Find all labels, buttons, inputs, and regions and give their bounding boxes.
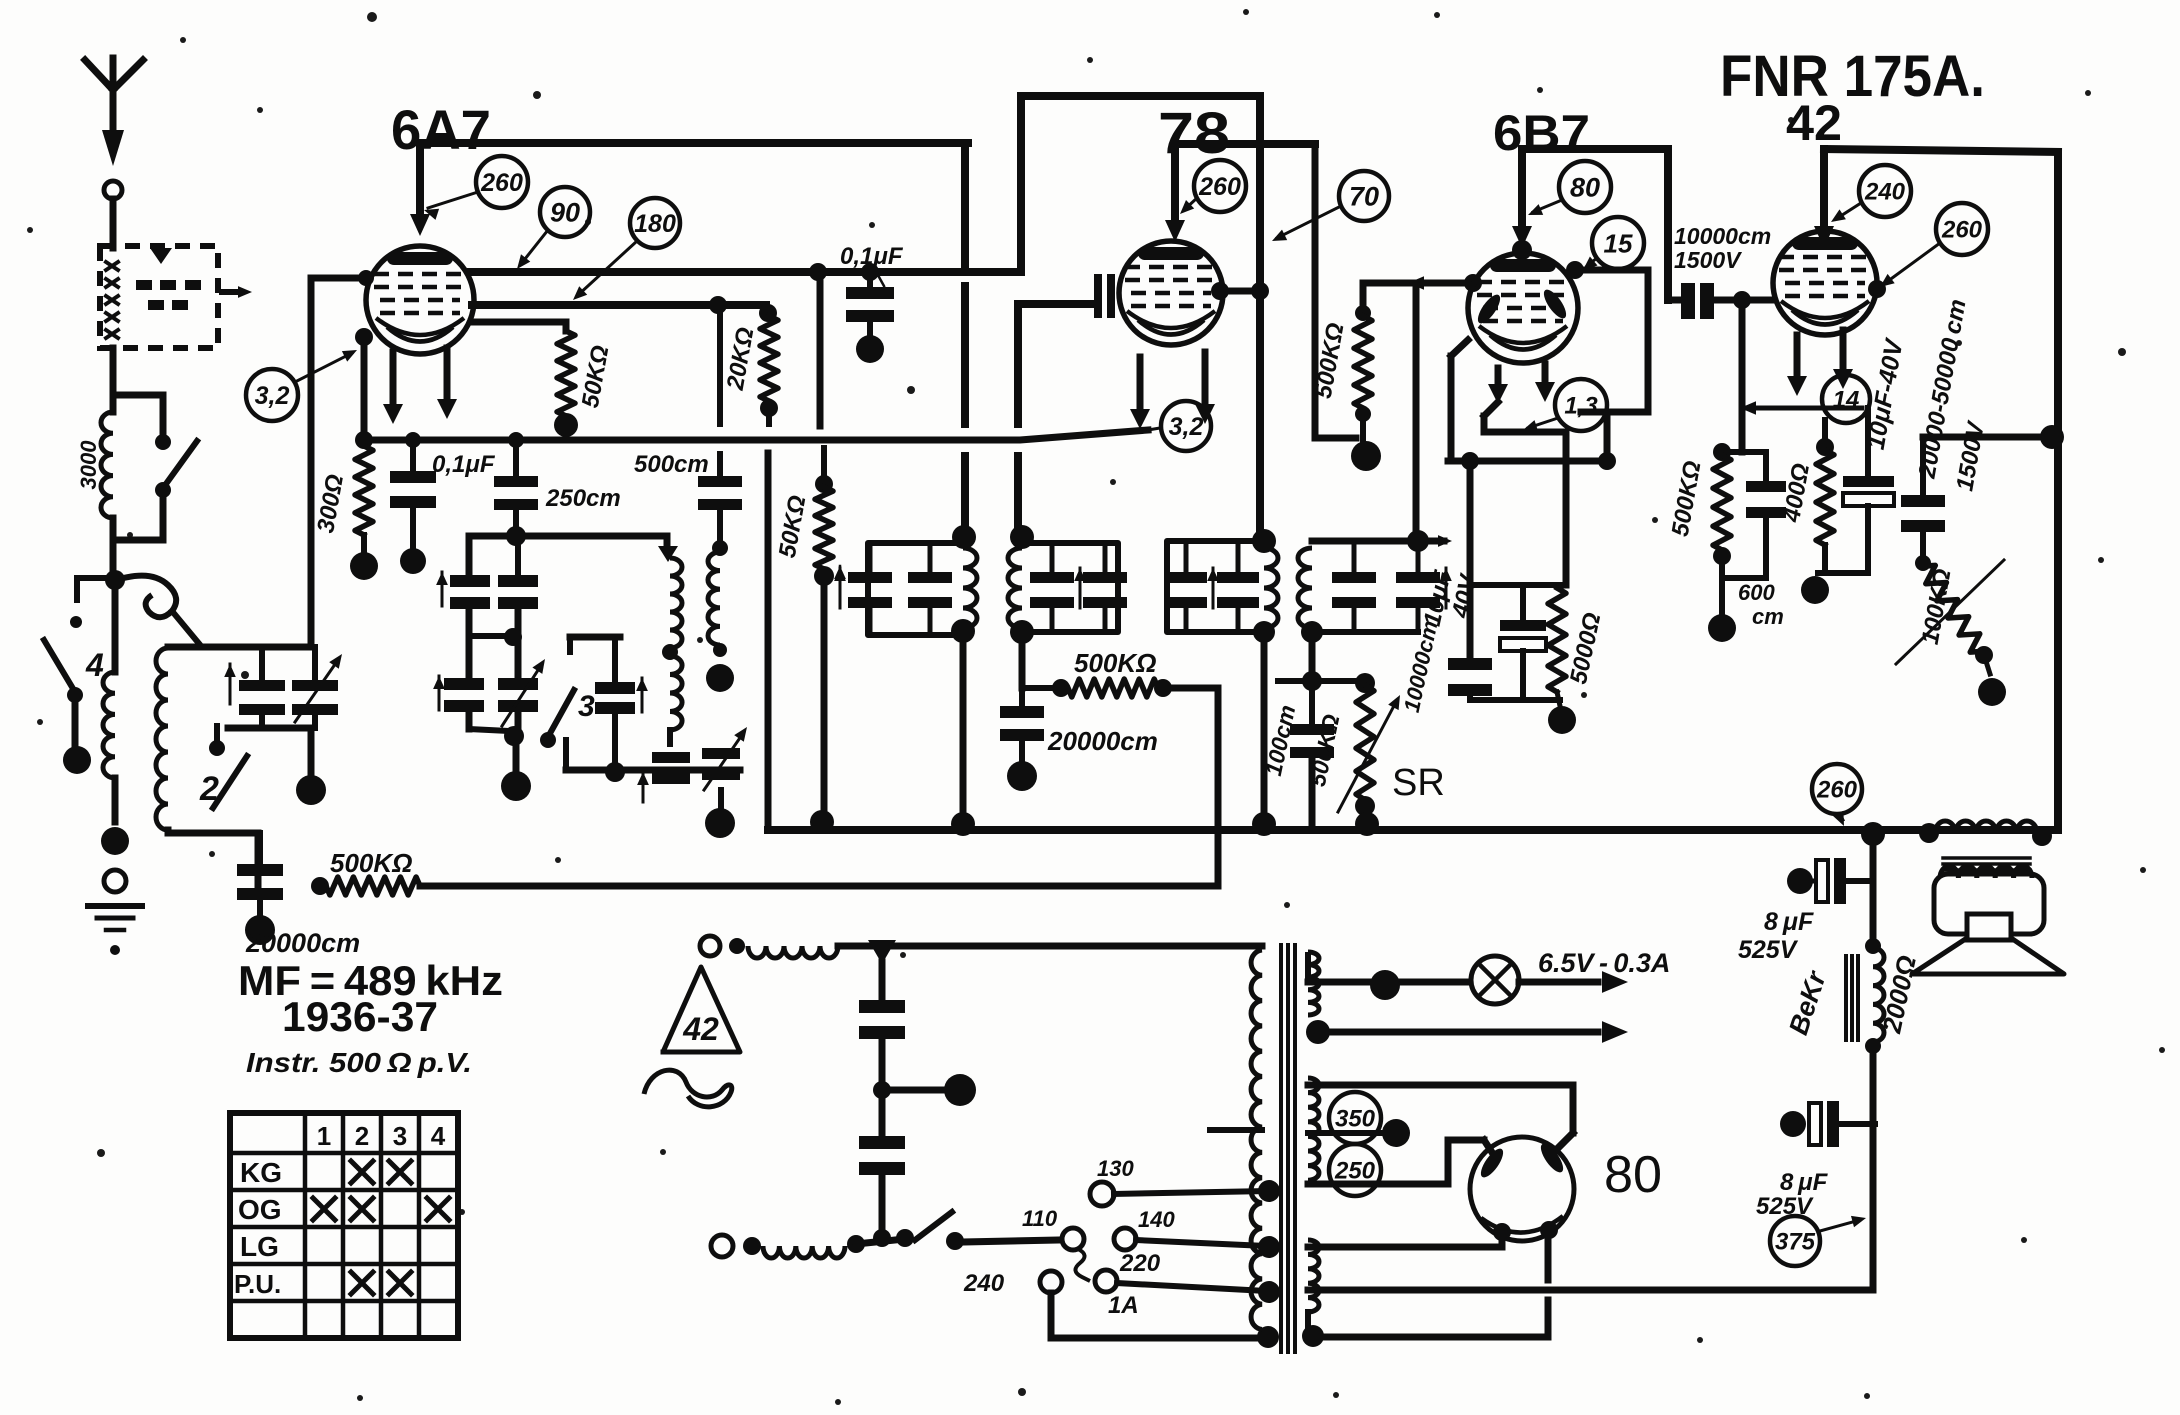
cathode network rails [1470, 585, 1560, 700]
label BeKr [1783, 966, 1832, 1038]
label Instr 500 ohm pV [246, 1047, 472, 1078]
capacitor osc gang A2 [498, 544, 538, 609]
wire osc gang mid [469, 609, 522, 678]
wire curl to gang [120, 576, 201, 646]
capacitor IFT2 a [1165, 541, 1207, 632]
label 220 [1119, 1250, 1161, 1277]
ground blob 0.1uF [400, 548, 426, 574]
label MF 489kHz [238, 957, 503, 1004]
svg-text:260: 260 [1941, 217, 1983, 244]
label 50K cathode [577, 343, 615, 410]
label 6.5V 0.3A [1538, 948, 1670, 978]
tube 78 [1119, 241, 1223, 345]
callout 240 [1831, 165, 1911, 222]
svg-text:3,2: 3,2 [255, 382, 290, 410]
transformer secondary 6.5V [1308, 952, 1319, 1015]
svg-text:500KΩ: 500KΩ [1074, 648, 1156, 678]
wire line2 screen [472, 301, 766, 309]
resistor 5000 ohm [1548, 588, 1566, 692]
callout 260 78 [1180, 160, 1246, 214]
label 20000cm cathode [1047, 726, 1158, 756]
transformer primary winding [1251, 950, 1262, 1330]
coil IFT2 secondary [1298, 548, 1312, 628]
capacitor line filter 2 [859, 1090, 905, 1240]
wire osc gang left riser [466, 536, 473, 575]
svg-text:20000cm: 20000cm [245, 928, 360, 958]
node mains bottom junction [873, 1229, 891, 1247]
mains switch [915, 1212, 1061, 1250]
pin 42 fil 1 [1787, 335, 1807, 396]
coil speaker field [1865, 938, 1884, 1054]
wire 15 screen L [1566, 261, 1648, 412]
wire line3 [471, 322, 566, 331]
pilot lamp [1471, 956, 1519, 1004]
svg-text:525V: 525V [1738, 936, 1799, 964]
speaker cone [1912, 938, 2064, 974]
42 box [1814, 149, 2058, 830]
label 20000cm [245, 928, 360, 958]
node IFT1 primary bottom [951, 619, 975, 643]
wire 6B7 grid line [1363, 274, 1482, 292]
ground blob cathode net [1548, 692, 1576, 734]
capacitor IFT2 b [1217, 541, 1259, 632]
wire vertical x311 [308, 278, 315, 647]
pin 78 fil 2 [1195, 352, 1215, 424]
resistor 500K 42 grid [1713, 443, 1766, 612]
label 20K [722, 325, 760, 393]
label 0.1uF coupling [840, 243, 904, 286]
node 6B7 top cap [1512, 240, 1532, 260]
svg-text:0,1μF: 0,1μF [840, 243, 904, 270]
callout 250 [1329, 1144, 1381, 1196]
ground blob tuning [101, 827, 129, 855]
field coil core [1846, 956, 1858, 1040]
arrow osc gang B [433, 676, 445, 710]
svg-text:260: 260 [480, 169, 523, 197]
label 50K screen [774, 493, 812, 560]
arrow IFT2 d [1440, 568, 1452, 608]
label 500K 42 [1667, 459, 1707, 539]
wire AVC line [420, 688, 1218, 886]
callout 3.2 6A7 [246, 350, 357, 421]
terminal 140 [1114, 1228, 1280, 1258]
capacitor padder B [702, 727, 747, 790]
node 78 plate [1211, 282, 1269, 300]
fuse choke bottom [763, 1246, 845, 1258]
svg-text:2: 2 [355, 1121, 369, 1151]
diode anodes 6B7 [1474, 286, 1570, 326]
coil tuning primary [103, 580, 115, 822]
ground [88, 906, 142, 955]
svg-text:350: 350 [1335, 1106, 1376, 1133]
svg-text:4: 4 [85, 647, 104, 683]
capacitor 10000cm IF [1448, 658, 1492, 700]
arrow IFT1 a [834, 568, 846, 608]
wire 42 grid drop [1739, 300, 1746, 452]
svg-text:70: 70 [1349, 182, 1379, 212]
ground blob centertap [1382, 1119, 1410, 1147]
label 10000cm coupling [1674, 223, 1771, 273]
pin 6B7 fil 1 [1488, 368, 1508, 404]
tube 6A7 [366, 246, 474, 354]
svg-text:180: 180 [634, 210, 676, 238]
callout 375 [1770, 1216, 1866, 1266]
potentiometer SR 500K [1338, 673, 1400, 830]
svg-text:130: 130 [1097, 1156, 1134, 1181]
transformer secondary HT [1308, 1078, 1319, 1180]
wire osc trimmer top [570, 637, 620, 682]
capacitor 8uF bottom [1780, 1101, 1875, 1147]
svg-text:42: 42 [1786, 95, 1842, 151]
svg-text:SR: SR [1392, 762, 1445, 804]
capacitor 10000cm coupling [1668, 283, 1773, 319]
label 250cm [545, 485, 621, 512]
svg-text:1: 1 [317, 1121, 331, 1151]
callout 260 42 [1868, 203, 1988, 298]
pin 6A7 fil 1 [383, 352, 403, 424]
label 500cm [634, 451, 709, 478]
svg-text:2: 2 [199, 770, 219, 808]
wire x1416 to IFT2 [1413, 283, 1420, 541]
svg-text:80: 80 [1604, 1146, 1662, 1204]
svg-text:80: 80 [1570, 173, 1600, 203]
node 80 pins [1493, 1221, 1558, 1241]
output transformer secondary [1940, 866, 2032, 878]
wire 42 bias line [1740, 401, 1862, 414]
wire to coupling cap [213, 833, 258, 886]
wire 6.5V arrow [1519, 971, 1628, 993]
ground blob gang [296, 775, 326, 805]
svg-text:Instr. 500 Ω p.V.: Instr. 500 Ω p.V. [246, 1047, 472, 1078]
capacitor 600cm [1722, 452, 1786, 578]
antenna terminal [104, 181, 122, 199]
table X marks OG [313, 1198, 449, 1220]
ground blob osc gang [501, 771, 531, 801]
label 10uF 40V 42 [1862, 335, 1909, 451]
wire antenna to filter [110, 199, 117, 248]
callout 90 [517, 187, 590, 269]
wire speaker field top [1870, 834, 1877, 948]
svg-text:OG: OG [238, 1194, 282, 1225]
node choke out [847, 1229, 914, 1253]
antenna [85, 58, 143, 166]
wire 6A7 cathode [355, 328, 373, 440]
arrow IFT1 d [1074, 568, 1086, 608]
label 400 ohm [1778, 461, 1815, 525]
wire osc gang bottom [469, 712, 524, 770]
ground blob 50K [554, 413, 578, 437]
svg-text:250cm: 250cm [545, 485, 621, 512]
ground blob tone [1978, 678, 2006, 706]
callout 260 6A7 [424, 156, 528, 220]
title FNR 175A [1720, 44, 1985, 109]
mains terminal bottom [711, 1235, 761, 1257]
node bus speaker [1861, 822, 1885, 846]
antenna filter dashed box [100, 246, 218, 348]
wire 80 cathode [1545, 1230, 1552, 1337]
table X marks PU [351, 1272, 411, 1294]
resistor 500K IF [1022, 679, 1218, 697]
capacitor 20000cm cathode [1000, 688, 1044, 760]
IFT2 secondary caps [1332, 541, 1440, 632]
coil value 3000 [76, 440, 101, 490]
wire gang bottom [228, 728, 311, 774]
node filter mid [873, 1081, 944, 1099]
ground blob switch 4 [63, 746, 91, 774]
pin 78 fil 1 [1130, 357, 1150, 429]
node cathode junction [355, 431, 373, 449]
svg-text:6.5V - 0.3A: 6.5V - 0.3A [1538, 948, 1670, 978]
switch 2 [199, 726, 247, 808]
wire rect filament out [1308, 1232, 1502, 1247]
label tone cap [1913, 297, 1990, 493]
ground blob filter [944, 1074, 976, 1106]
node IFT2 secondary top [1407, 530, 1429, 552]
node IFT1 primary top [952, 525, 976, 549]
wire x1260 78 plate drop [1256, 96, 1264, 541]
arrow on grid line [1408, 276, 1424, 289]
label 240 [963, 1270, 1005, 1297]
terminal 130 [1090, 1180, 1280, 1206]
capacitor 100cm [1290, 681, 1334, 830]
transformer core [1281, 945, 1295, 1352]
svg-text:3: 3 [578, 690, 595, 723]
table header 1 2 3 4 [317, 1121, 446, 1151]
label 110 [1022, 1206, 1058, 1231]
fuse choke top [748, 946, 838, 958]
coil antenna primary [101, 412, 113, 578]
svg-text:cm: cm [1752, 604, 1784, 629]
ground blob osc feedback [706, 664, 734, 692]
speaker voice coil [1967, 914, 2011, 940]
tube label 6A7 [391, 98, 491, 161]
node IFT1 secondary bottom [1010, 620, 1034, 644]
svg-text:10000cm: 10000cm [1674, 223, 1771, 249]
label 500K SR [1304, 712, 1345, 789]
capacitor 0.1uF cathode [390, 432, 436, 548]
resistor 20K [759, 304, 778, 424]
wire 6.5V tap top [1308, 955, 1468, 1000]
svg-text:600: 600 [1738, 580, 1775, 605]
callout 350 [1329, 1092, 1381, 1144]
table X marks KG [351, 1161, 411, 1183]
speaker frame [1934, 874, 2044, 934]
ground blob 42 grid [1708, 614, 1736, 642]
resistor 50K cathode [557, 331, 575, 416]
ground blob 6B7 grid [1351, 441, 1381, 471]
wire gang top [168, 644, 311, 651]
arrow padder [637, 772, 649, 802]
coil oscillator grid [662, 558, 682, 744]
label 130 [1097, 1156, 1134, 1181]
wire HT plate2 [1308, 1140, 1495, 1184]
wire IFT2 secondary top line [1312, 535, 1452, 547]
wire 78 grid riser [1018, 304, 1093, 537]
svg-text:8 μF: 8 μF [1764, 908, 1814, 936]
pin 42 fil 2 [1833, 330, 1853, 389]
arrow osc gang A [436, 572, 448, 606]
svg-text:1936-37: 1936-37 [282, 993, 438, 1040]
wire padder bottom [718, 790, 724, 808]
capacitor padder A [652, 752, 690, 784]
switch 4 [44, 616, 104, 748]
wire 6A7 plate top [420, 139, 968, 147]
ground blob 20000cm cathode [1007, 761, 1037, 791]
IFT2 primary box [1167, 541, 1264, 632]
label 600cm [1738, 580, 1784, 629]
coil tuning secondary [156, 648, 213, 833]
svg-text:8 μF: 8 μF [1780, 1169, 1829, 1196]
ground blob 300 [350, 552, 378, 580]
label SR [1392, 762, 1445, 804]
label 0.1uF cathode [432, 451, 496, 478]
svg-text:260: 260 [1816, 777, 1858, 804]
capacitor 20000cm antenna [237, 833, 283, 918]
wire IFT1 primary to bus [960, 631, 967, 830]
tube label 42 [1786, 95, 1842, 151]
wire branch x820 [809, 263, 827, 426]
node IFT2 primary top [1252, 529, 1276, 553]
tube label 80 [1604, 1146, 1662, 1204]
callout 260 bus [1812, 764, 1862, 826]
wire main bus [768, 453, 2058, 830]
svg-text:4: 4 [431, 1121, 446, 1151]
node IFT1 secondary top [1010, 525, 1034, 549]
label 8uF bottom [1756, 1169, 1829, 1220]
svg-text:0,1μF: 0,1μF [432, 451, 496, 478]
terminal 240 [1040, 1271, 1062, 1338]
wire x1315 drop [1315, 144, 1356, 438]
tube 42 [1773, 231, 1877, 335]
tube label 6B7 [1493, 105, 1590, 161]
wire osc bottom rail [566, 740, 740, 782]
phase squiggle [644, 1070, 732, 1107]
svg-text:240: 240 [963, 1270, 1005, 1297]
switch 3 [540, 637, 595, 748]
transformer secondary 5V [1308, 1240, 1319, 1332]
capacitor 500cm [698, 296, 742, 556]
wire filter down [110, 348, 117, 412]
capacitor osc gang B2 [498, 659, 545, 726]
svg-text:KG: KG [240, 1157, 282, 1188]
wire 80 plate2 entry [1550, 1133, 1573, 1156]
IFT1 primary box [868, 543, 963, 635]
wire 78 inner box top [1175, 140, 1315, 148]
pin 6A7 fil 2 [437, 348, 457, 419]
capacitor 8uF top [1787, 858, 1873, 904]
output transformer core [1943, 858, 2030, 870]
coil oscillator feedback [708, 552, 727, 657]
callout 80 [1528, 161, 1611, 215]
resistor 50K screen [814, 448, 846, 818]
wire 6B7 cathode L1 [1451, 340, 1468, 461]
wire field to HTminus [1870, 1046, 1877, 1290]
coil IFT1 secondary [1008, 548, 1022, 628]
label 100K [1917, 567, 1957, 647]
wire 6A7 top cap [410, 143, 430, 236]
tap stub [1210, 1127, 1262, 1133]
label 500K 6B7 grid [1310, 321, 1350, 401]
svg-text:1,3: 1,3 [1564, 393, 1598, 420]
wire branch to switch 1 [113, 392, 163, 399]
wire AVC riser [1019, 632, 1026, 688]
capacitor 10uF 40V 6B7 [1500, 585, 1546, 700]
terminal 110 [1062, 1228, 1090, 1281]
capacitor gang trimmer [292, 647, 342, 728]
resistor 400 ohm [1816, 420, 1866, 573]
capacitor gang fixed [239, 647, 285, 728]
node mains junction [868, 940, 896, 964]
coil IFT1 primary [963, 548, 977, 628]
wire mains top [838, 943, 1262, 950]
label 1A [1108, 1292, 1139, 1319]
svg-text:140: 140 [1138, 1207, 1175, 1232]
wire IFT2 primary to bus [1253, 621, 1275, 830]
capacitor line filter 1 [859, 962, 905, 1086]
label 500K IF [1074, 648, 1156, 678]
label 2000 ohm [1876, 953, 1922, 1037]
svg-text:220: 220 [1119, 1250, 1161, 1277]
capacitor 10uF 40V 42 [1843, 408, 1894, 573]
svg-text:6A7: 6A7 [391, 98, 491, 161]
arrow gang fixed [224, 664, 236, 704]
callout 15 [1583, 217, 1644, 270]
pin 6B7 fil 2 [1535, 364, 1555, 402]
label 10000cm IF [1399, 618, 1443, 714]
ground blob 20000cm [245, 915, 275, 945]
svg-text:1A: 1A [1108, 1292, 1139, 1319]
ground blob 42 cathode [1801, 576, 1829, 604]
callout 1.3 [1523, 379, 1607, 431]
label 10uF 40V 6B7 [1419, 567, 1483, 629]
svg-text:P.U.: P.U. [234, 1269, 281, 1299]
resistor 500K 6B7 grid [1354, 283, 1372, 442]
label 300 ohm [312, 472, 349, 535]
terminal 220 [1095, 1270, 1280, 1303]
capacitor IFT1 c [1030, 543, 1074, 632]
svg-text:260: 260 [1198, 173, 1241, 201]
output transformer primary [1919, 821, 2052, 846]
capacitor osc trimmer [595, 682, 635, 770]
capacitor osc gang B1 [444, 678, 484, 712]
capacitor IFT1 b [908, 543, 952, 635]
arrow IFT2 a [1207, 568, 1219, 608]
wire 78 top cap [1165, 144, 1185, 242]
chassis terminal [104, 870, 126, 892]
potentiometer 100K tone [1896, 560, 2004, 674]
6B7 box [1512, 149, 1668, 300]
capacitor 0.1uF coupling [846, 263, 894, 336]
svg-text:110: 110 [1022, 1206, 1058, 1231]
wire 6.3V tap bottom [1306, 1020, 1628, 1044]
arrow out of filter [222, 286, 252, 298]
capacitor osc gang A1 [450, 575, 490, 609]
wire y461 [1448, 412, 1616, 470]
wire osc top [469, 526, 678, 562]
wire x968 plate to IFT1 [961, 143, 969, 537]
grid cap 78 [1094, 274, 1115, 318]
svg-text:3000: 3000 [76, 440, 101, 490]
svg-text:500KΩ: 500KΩ [330, 848, 412, 878]
wire bottom return primary [1051, 1326, 1279, 1348]
wire bottom return secondary [1302, 1325, 1545, 1347]
ground blob padder [705, 808, 735, 838]
switch 1 [120, 395, 197, 540]
waveband table grid [230, 1113, 458, 1338]
arrow osc trimmer [636, 678, 648, 712]
triangle 42 marker [663, 967, 740, 1052]
svg-text:42: 42 [682, 1011, 719, 1047]
